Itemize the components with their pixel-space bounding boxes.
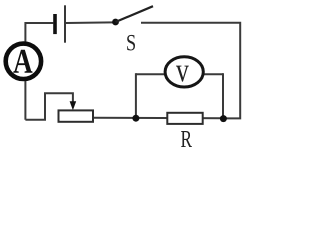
switch S open lever <box>116 6 154 22</box>
wire bottom-left run to rheostat slider <box>25 93 73 120</box>
resistor R rectangle <box>167 113 202 124</box>
switch S pivot dot <box>112 19 119 26</box>
rheostat RP rectangle <box>59 110 94 121</box>
voltmeter U2 ellipse <box>165 57 203 87</box>
wire voltmeter branch left vertical <box>135 73 137 118</box>
wire voltmeter branch right vertical <box>222 73 224 118</box>
battery B1 positive long thin plate <box>64 5 66 42</box>
wire bottom main run <box>93 117 224 120</box>
wire top-left: ammeter top to battery <box>25 23 53 42</box>
rheostat slider arrowhead <box>70 101 77 110</box>
battery B1 negative short thick plate <box>53 14 57 34</box>
junction dot right <box>220 115 227 122</box>
ammeter U1 circle <box>6 44 41 79</box>
wire voltmeter branch horizontal <box>136 73 223 75</box>
label R <box>181 131 192 147</box>
junction dot left <box>132 115 139 122</box>
wire battery to switch pivot <box>66 21 113 24</box>
wire ammeter vertical <box>24 42 26 120</box>
wire switch to top-right corner and down right side <box>141 23 240 119</box>
ammeter letter A <box>13 50 32 73</box>
label S <box>127 35 135 51</box>
voltmeter letter v <box>176 66 189 82</box>
